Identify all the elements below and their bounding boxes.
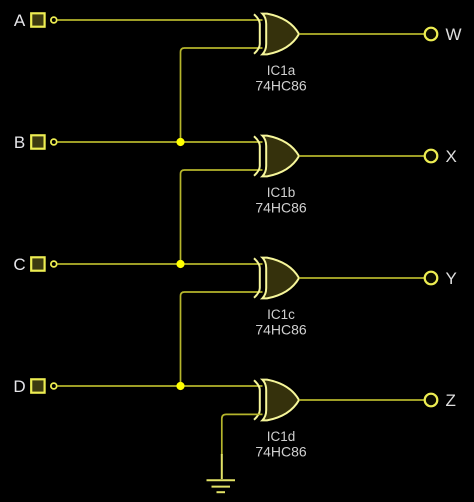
- svg-text:W: W: [446, 25, 462, 44]
- input pin open circle D: [51, 383, 57, 389]
- ground symbol: [207, 454, 236, 492]
- wire from net C junction up to gate IC1b bottom input: [181, 170, 263, 264]
- wire from gate IC1a output to terminal W: [299, 33, 424, 35]
- input pin open circle B: [51, 139, 57, 145]
- svg-text:Y: Y: [446, 269, 457, 288]
- XOR gate U=IC1a body: [262, 14, 299, 55]
- XOR gate IC1d input-side double-curve arc: [254, 380, 260, 420]
- svg-text:B: B: [14, 133, 25, 152]
- svg-text:74HC86: 74HC86: [255, 78, 307, 94]
- wire from ground up to gate IC1d bottom input: [222, 414, 263, 455]
- input terminal square C: [31, 257, 44, 270]
- output terminal circle W: [425, 28, 438, 41]
- wire from gate IC1c output to terminal Y: [299, 277, 424, 279]
- svg-text:74HC86: 74HC86: [255, 322, 307, 338]
- input terminal square D: [31, 379, 44, 392]
- wire from gate IC1d output to terminal Z: [299, 399, 424, 401]
- wire from net B junction up to gate IC1a bottom input: [181, 48, 263, 142]
- wire from gate IC1b output to terminal X: [299, 155, 424, 157]
- XOR gate IC1a input-side double-curve arc: [254, 14, 260, 54]
- svg-text:IC1b: IC1b: [267, 185, 296, 200]
- input pin open circle C: [51, 261, 57, 267]
- svg-text:C: C: [13, 255, 25, 274]
- junction node on net B at x=180.5: [176, 138, 184, 146]
- XOR gate IC1b input-side double-curve arc: [254, 136, 260, 176]
- output terminal circle X: [425, 150, 438, 163]
- XOR gate U=IC1b body: [262, 136, 299, 177]
- svg-text:IC1d: IC1d: [267, 429, 296, 444]
- input terminal square B: [31, 135, 44, 148]
- junction node on net C at x=180.5: [176, 260, 184, 268]
- XOR gate U=IC1c body: [262, 258, 299, 299]
- wire from input B to gate IC1b top input: [57, 141, 262, 143]
- output terminal circle Z: [425, 394, 438, 407]
- svg-text:A: A: [14, 11, 26, 30]
- svg-text:74HC86: 74HC86: [255, 200, 307, 216]
- wire from input A to gate IC1a top input: [57, 19, 262, 21]
- svg-text:74HC86: 74HC86: [255, 444, 307, 460]
- svg-text:D: D: [13, 377, 25, 396]
- junction node on net D at x=180.5: [176, 382, 184, 390]
- XOR gate IC1c input-side double-curve arc: [254, 258, 260, 298]
- output terminal circle Y: [425, 272, 438, 285]
- XOR gate U=IC1d body: [262, 380, 299, 421]
- svg-text:IC1c: IC1c: [267, 307, 295, 322]
- svg-text:Z: Z: [446, 391, 456, 410]
- wire from input C to gate IC1c top input: [57, 263, 262, 265]
- input pin open circle A: [51, 17, 57, 23]
- svg-text:X: X: [446, 147, 457, 166]
- wire from input D to gate IC1d top input: [57, 385, 262, 387]
- svg-text:IC1a: IC1a: [267, 63, 296, 78]
- wire from net D junction up to gate IC1c bottom input: [181, 292, 263, 386]
- input terminal square A: [31, 13, 44, 26]
